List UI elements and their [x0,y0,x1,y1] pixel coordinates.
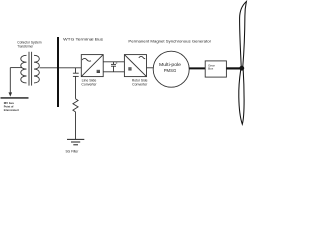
gear box [205,61,226,77]
svg-text:Transformer: Transformer [17,45,33,49]
generator G1 Multi-pole PMSG [153,51,189,87]
svg-text:Box: Box [208,67,214,71]
svg-text:Multi-pole: Multi-pole [159,62,181,67]
svg-text:WTG Terminal Bus: WTG Terminal Bus [63,38,103,42]
svg-text:Interconnect: Interconnect [4,108,19,112]
wire shaft gear box to turbine hub [226,67,240,69]
wire DC link bottom rail [103,71,124,73]
label Rotor Side Converter [132,78,148,86]
svg-text:SG Filter: SG Filter [66,149,80,153]
converter U2 Rotor Side Converter [124,55,146,77]
turbine blade upper [240,2,247,67]
wire DC link top rail [103,61,124,63]
svg-text:Converter: Converter [81,82,97,86]
turbine blade lower [239,70,244,124]
wire drop to MV bus with arrow [9,68,13,97]
wire transformer to line side converter (through bus) [40,67,82,69]
resistor R1 (shunt filter) [73,99,78,112]
converter U1 Line Side Converter [81,55,103,77]
wire resistor to ground [75,112,77,139]
capacitor C1 (shunt filter) [73,68,79,77]
label Collector System Transformer [17,41,41,49]
svg-text:PMSG: PMSG [164,68,177,73]
node MV bus bar [1,97,29,99]
node WTG Terminal Bus [57,37,59,107]
svg-text:Converter: Converter [132,82,148,86]
turbine hub [239,66,244,71]
ground [67,139,84,144]
capacitor C2 DC link [111,62,117,72]
wire shaft generator to gear box [189,67,205,69]
wire rotor side converter to generator [147,67,154,69]
wire capacitor to resistor [75,76,77,98]
transformer T1 [21,52,40,86]
label MV bus Point of Interconnect [4,101,19,112]
svg-text:Permanent Magnet Synchronous G: Permanent Magnet Synchronous Generator [128,40,212,44]
wire transformer left lead [10,67,21,69]
label Line Side Converter [81,78,97,86]
